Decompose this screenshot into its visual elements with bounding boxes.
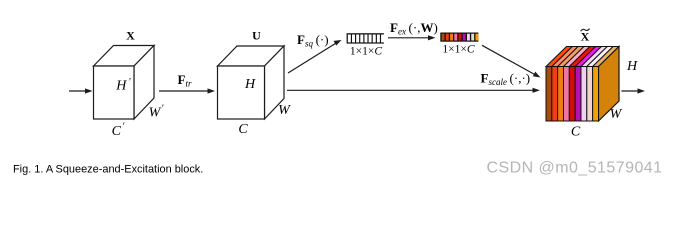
svg-text:1×1×C: 1×1×C [350,45,382,57]
svg-text:U: U [252,29,261,43]
cube U (after transformation) [218,46,285,119]
arrow F_tr [159,88,215,93]
svg-text:CSDN @m0_51579041: CSDN @m0_51579041 [487,160,663,177]
svg-text:Fex (·,W): Fex (·,W) [390,20,438,37]
arrow F_scale [287,88,540,93]
svg-text:X: X [126,29,135,43]
arrow F_ex [388,35,436,40]
svg-text:H: H [626,59,638,74]
svg-text:W: W [278,103,291,118]
wire: input arrow into cube X [69,88,93,93]
svg-text:C: C [238,122,248,137]
output cube X~ : right side face [599,47,620,122]
cube X (input tensor) [94,46,155,120]
wire: output arrow [621,88,645,93]
svg-text:C: C [571,125,581,140]
watermark CSDN [487,160,664,178]
output cube X~ : front face colored slices [546,67,599,122]
svg-text:Fsq (·): Fsq (·) [297,32,329,49]
wire: diagonal arrow to squeeze vector [288,40,342,73]
svg-text:H: H [244,77,256,92]
svg-text:W: W [610,107,623,122]
squeeze vector 1x1xC (white striped bar) [347,33,384,43]
svg-text:X: X [581,30,590,44]
output cube X~ : top face colored slices [546,47,619,67]
svg-text:Fig. 1. A Squeeze-and-Excitati: Fig. 1. A Squeeze-and-Excitation block. [13,163,203,175]
wire: diagonal arrow from excitation vector to output cube [482,45,541,77]
svg-text:1×1×C: 1×1×C [442,43,474,55]
excitation vector 1x1xC (colored bar) [440,33,478,42]
